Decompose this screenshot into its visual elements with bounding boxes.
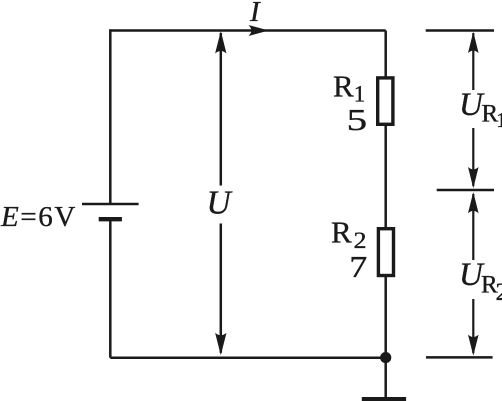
- wire left upper: [109, 29, 112, 203]
- voltage arrow U head down: [215, 333, 226, 356]
- UR1 arrow shaft lower: [472, 128, 474, 186]
- UR2 arrow shaft lower: [472, 299, 474, 353]
- tick middle: [437, 189, 494, 192]
- wire right lower: [384, 276, 387, 399]
- ground: [362, 397, 406, 401]
- svg-text:2: 2: [496, 279, 502, 306]
- svg-text:E=6V: E=6V: [0, 201, 77, 233]
- tick top (UR1 upper): [426, 29, 494, 32]
- voltage arrow U head up: [215, 31, 226, 54]
- UR2 head up: [468, 192, 479, 213]
- resistor R1: [378, 78, 393, 124]
- voltage arrow U shaft upper: [220, 33, 223, 186]
- svg-text:U: U: [207, 184, 234, 221]
- UR2 arrow shaft upper: [472, 194, 474, 260]
- UR1 arrow shaft upper: [472, 33, 474, 90]
- UR2 head down: [468, 335, 479, 356]
- wire bottom: [110, 357, 385, 360]
- svg-text:5: 5: [347, 102, 368, 137]
- battery E plate short: [99, 217, 122, 221]
- wire left lower: [109, 221, 112, 358]
- wire right middle: [384, 126, 387, 230]
- svg-text:R1: R1: [333, 69, 365, 107]
- tick bottom: [426, 356, 493, 359]
- UR1 head up: [468, 32, 479, 53]
- wire top: [110, 29, 385, 32]
- svg-text:1: 1: [496, 108, 502, 132]
- resistor R2: [378, 229, 393, 276]
- UR1 head down: [468, 167, 479, 188]
- voltage arrow U shaft lower: [220, 224, 223, 353]
- current arrow I head: [249, 25, 269, 36]
- svg-text:I: I: [249, 0, 261, 28]
- svg-text:7: 7: [349, 249, 367, 284]
- svg-text:R: R: [331, 214, 352, 249]
- node junction dot: [380, 352, 391, 363]
- battery E plate long: [82, 203, 139, 206]
- wire right upper: [384, 31, 387, 78]
